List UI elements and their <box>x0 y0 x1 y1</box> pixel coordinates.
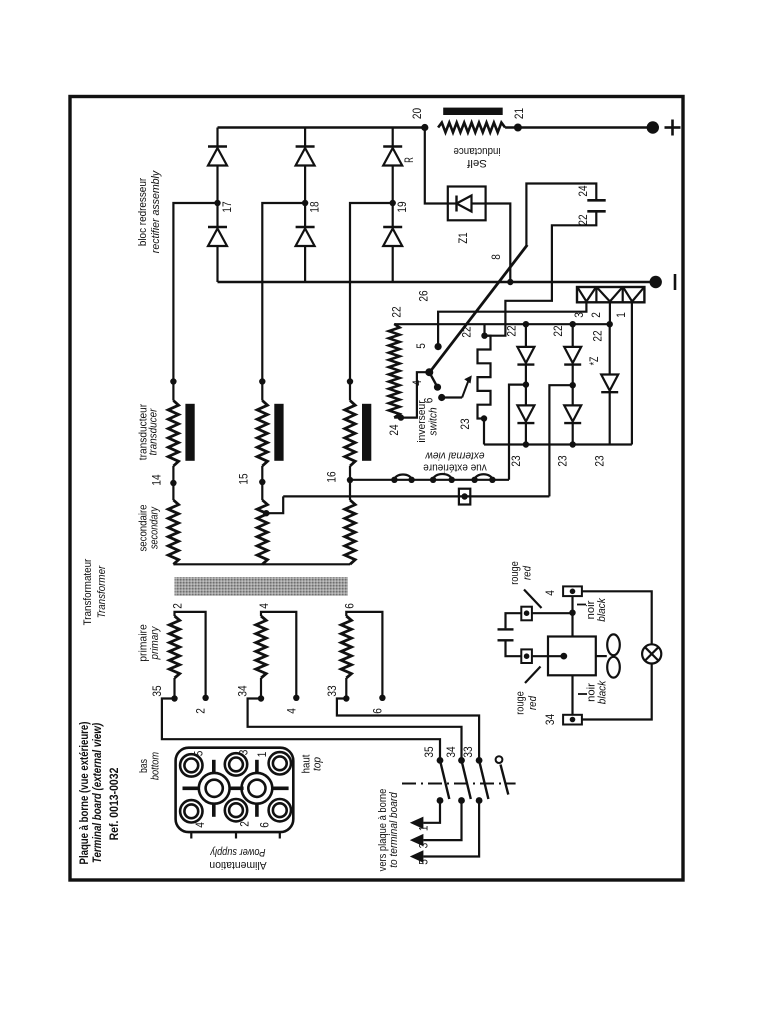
svg-text:20: 20 <box>410 108 424 119</box>
diode <box>296 145 315 147</box>
link jumper <box>475 474 493 480</box>
wire rheostat 24 to pivot 4 <box>401 372 429 417</box>
svg-text:Alimentation: Alimentation <box>209 859 266 871</box>
transducer winding 14 <box>170 378 176 384</box>
secondary winding <box>261 482 263 500</box>
svg-text:23: 23 <box>509 455 523 466</box>
link jumper <box>394 474 411 479</box>
svg-text:34: 34 <box>543 714 557 725</box>
svg-text:22: 22 <box>460 326 474 337</box>
svg-text:2: 2 <box>171 603 185 609</box>
switch pivot node 4 <box>425 368 433 376</box>
svg-text:5: 5 <box>414 343 428 349</box>
svg-text:inductance: inductance <box>454 145 501 157</box>
switch pole 35 <box>437 757 444 764</box>
diode <box>564 347 581 363</box>
wire to arrow 1 <box>423 801 440 823</box>
arrow 5 vers plaque a borne <box>410 850 424 862</box>
switch blade 4-8 <box>430 245 528 372</box>
diode <box>296 226 315 228</box>
rectifier leg 18 <box>304 128 306 147</box>
svg-text:22: 22 <box>591 330 605 341</box>
wire Z1 to node 8 <box>486 204 511 283</box>
- terminal <box>650 276 662 288</box>
wire node 20 to Z1 <box>425 128 448 204</box>
fuse box <box>459 489 470 505</box>
primary winding 35 <box>169 616 179 678</box>
svg-text:top: top <box>312 757 324 771</box>
svg-text:6: 6 <box>257 822 271 828</box>
svg-text:R: R <box>402 157 416 163</box>
wire 35 to switch <box>162 699 440 761</box>
svg-text:15: 15 <box>237 473 251 484</box>
svg-text:Z1: Z1 <box>456 232 470 243</box>
connector 3-2-1 vue exterieure <box>577 287 644 302</box>
svg-text:Plaque à borne (vue extérieure: Plaque à borne (vue extérieure) <box>77 722 91 865</box>
svg-text:22: 22 <box>551 325 565 336</box>
connector pin 2 <box>225 799 247 821</box>
switch blade short <box>429 372 437 387</box>
svg-text:2: 2 <box>589 312 603 318</box>
switch pole 34 <box>458 757 465 764</box>
wire contact 5 to connector pin 3 <box>438 302 586 346</box>
primary winding 34 <box>256 616 266 678</box>
arrow 3 vers plaque a borne <box>410 834 424 846</box>
svg-text:21: 21 <box>512 108 526 119</box>
terminal 2 <box>202 695 208 701</box>
diode column 22-23 <box>570 321 576 327</box>
svg-text:vue extérieure: vue extérieure <box>423 462 487 474</box>
svg-text:2: 2 <box>194 708 208 714</box>
svg-text:to terminal board: to terminal board <box>388 791 400 867</box>
resistor staircase <box>478 336 491 419</box>
wire to arrow 3 <box>423 801 461 841</box>
wire pin 2 to net 22 <box>609 302 611 324</box>
connector center pin <box>242 773 273 804</box>
svg-text:secondary: secondary <box>149 506 161 550</box>
wire node 18 to transducer <box>262 203 305 382</box>
terminal 4 <box>293 695 299 701</box>
connector key bars <box>183 786 199 790</box>
wire red box to motor <box>532 655 564 657</box>
terminal box red upper <box>521 607 532 621</box>
wire node 17 to transducer <box>173 203 217 382</box>
svg-text:Ref. 0013-0032: Ref. 0013-0032 <box>107 767 121 840</box>
wire terminal 4 to motor <box>571 596 573 636</box>
diode *Z column <box>607 321 613 327</box>
terminal 4 box <box>563 586 582 596</box>
switch contact 6 <box>438 394 445 401</box>
wire rectifier bottom rail net 26 <box>218 281 656 284</box>
wire to + terminal <box>505 126 653 129</box>
svg-text:bloc redresseur: bloc redresseur <box>137 178 149 247</box>
wire motor to terminal 34 <box>571 675 573 715</box>
svg-text:34: 34 <box>444 746 458 757</box>
svg-text:primary: primary <box>149 625 161 660</box>
svg-text:red: red <box>522 565 534 580</box>
svg-text:external view: external view <box>425 450 485 462</box>
svg-text:19: 19 <box>395 201 409 212</box>
svg-text:4: 4 <box>193 822 207 828</box>
wire net 22 line <box>394 323 610 325</box>
connector pin 1 <box>269 752 291 774</box>
wire staircase to bottom line <box>483 419 485 445</box>
connector stubs <box>190 832 192 838</box>
wire lamp to terminal 34 <box>582 664 652 720</box>
wire 33 to switch <box>337 699 479 761</box>
svg-text:22: 22 <box>504 325 518 336</box>
diode <box>517 347 534 363</box>
zener Z1 box <box>448 187 486 221</box>
svg-text:black: black <box>597 680 609 704</box>
svg-text:3: 3 <box>417 843 431 849</box>
diode <box>208 226 227 228</box>
transformer core <box>175 577 348 596</box>
power connector body <box>176 748 294 832</box>
svg-text:6: 6 <box>342 603 356 609</box>
svg-text:1: 1 <box>417 825 431 831</box>
svg-text:3: 3 <box>572 312 586 318</box>
wire capacitor 22 to contact 5 <box>486 212 596 335</box>
node 8 <box>507 279 513 285</box>
wire to arrow 5 <box>423 801 479 857</box>
switch pole 33 <box>476 757 483 764</box>
+ terminal <box>647 121 659 133</box>
capacitor C 24-22 <box>587 199 605 202</box>
svg-text:Transformateur: Transformateur <box>82 558 94 625</box>
svg-text:5: 5 <box>417 859 431 865</box>
secondary winding <box>172 483 174 500</box>
transducer core bar <box>274 404 283 461</box>
diode <box>517 405 534 421</box>
node 15 <box>259 479 265 485</box>
connector pin 5 <box>180 754 202 776</box>
wire link line 16 <box>350 479 510 481</box>
terminal 34 box <box>563 715 582 725</box>
svg-text:Transformer: Transformer <box>96 565 108 619</box>
wire 34 to switch <box>248 699 462 761</box>
svg-text:33: 33 <box>325 685 339 696</box>
node 34 <box>260 678 262 699</box>
node 16 <box>347 477 353 483</box>
svg-text:33: 33 <box>461 746 475 757</box>
svg-text:17: 17 <box>220 201 234 212</box>
wire tap to fuse line <box>266 496 283 513</box>
svg-text:4: 4 <box>284 708 298 714</box>
wire node 19 to transducer <box>350 203 393 382</box>
svg-text:transducer: transducer <box>148 407 160 455</box>
node 33 <box>345 678 347 699</box>
svg-text:Terminal board (external view): Terminal board (external view) <box>90 723 104 863</box>
diode column 22-23 <box>523 321 529 327</box>
transducer core bar <box>362 404 371 461</box>
wire secondary star bus <box>173 563 350 565</box>
svg-text:4: 4 <box>543 590 557 596</box>
svg-text:23: 23 <box>556 455 570 466</box>
svg-text:Self: Self <box>466 157 487 169</box>
wire fuse line tap 15 <box>283 495 549 497</box>
lamp <box>642 644 661 663</box>
secondary winding <box>349 480 351 500</box>
wire pin 1 to net 23 <box>631 302 633 444</box>
transducer winding 16 <box>347 378 353 384</box>
svg-text:Power supply: Power supply <box>209 846 265 858</box>
diode <box>383 145 402 147</box>
wire top to terminal 2 <box>175 612 206 698</box>
node mid <box>523 381 529 387</box>
node motor inner <box>560 653 567 660</box>
connector center pin <box>199 773 230 804</box>
rectifier leg 17 <box>216 128 218 147</box>
svg-text:22: 22 <box>576 214 590 225</box>
svg-text:primaire: primaire <box>138 624 150 662</box>
node 24 rheostat bottom <box>398 414 404 420</box>
svg-text:black: black <box>596 598 608 622</box>
transducer winding 15 <box>259 378 265 384</box>
svg-text:2: 2 <box>238 821 252 827</box>
node 18 <box>302 200 308 206</box>
wire net 23 bottom line <box>484 443 632 445</box>
diode <box>208 145 227 147</box>
svg-text:6: 6 <box>370 708 384 714</box>
svg-text:24: 24 <box>387 424 401 435</box>
fan <box>596 655 607 657</box>
svg-text:5: 5 <box>192 750 206 756</box>
svg-text:4: 4 <box>257 603 271 609</box>
svg-text:bottom: bottom <box>150 752 162 780</box>
dash-dot coupling line <box>402 783 516 785</box>
diode <box>601 375 618 391</box>
rectifier leg 19 <box>392 128 394 147</box>
wire blade top to capacitor 24 <box>526 184 596 246</box>
svg-text:34: 34 <box>236 685 250 696</box>
svg-text:24: 24 <box>576 185 590 196</box>
wire T to staircase <box>483 324 485 336</box>
svg-text:8: 8 <box>489 254 503 260</box>
core bar of self inductance <box>443 108 503 115</box>
switch contact 5 <box>435 343 442 350</box>
connector pin 3 <box>225 753 247 775</box>
svg-text:35: 35 <box>150 685 164 696</box>
svg-text:rectifier assembly: rectifier assembly <box>150 169 162 253</box>
resistor rheostat 22-24 <box>389 324 400 418</box>
wire top to terminal 4 <box>261 612 296 698</box>
svg-text:16: 16 <box>325 471 339 482</box>
arrow 1 vers plaque a borne <box>410 817 424 829</box>
inductor self inductance L1 <box>438 123 505 133</box>
svg-text:26: 26 <box>417 290 431 301</box>
node 20 <box>421 124 428 131</box>
svg-text:1: 1 <box>255 751 269 757</box>
node secondary tap 15 <box>263 510 269 516</box>
node 21 <box>514 124 522 132</box>
node 23 staircase bottom <box>481 415 487 421</box>
svg-text:rouge: rouge <box>509 561 521 585</box>
node 14 <box>170 480 176 486</box>
svg-text:23: 23 <box>458 418 472 429</box>
wire top to terminal 6 <box>346 612 382 698</box>
terminal 6 <box>379 695 385 701</box>
svg-text:red: red <box>527 695 539 710</box>
connector pin 6 <box>269 799 291 821</box>
svg-text:rouge: rouge <box>515 691 527 715</box>
primary winding 33 <box>341 616 351 678</box>
diode <box>383 226 402 228</box>
svg-text:*Z: *Z <box>587 357 601 366</box>
link jumper <box>433 474 452 480</box>
diode <box>564 405 581 421</box>
capacitor motor <box>506 613 522 628</box>
node 17 <box>214 200 220 206</box>
svg-text:14: 14 <box>150 474 164 485</box>
wire mid node to pairs line <box>509 385 526 480</box>
wire node to red box <box>532 612 573 614</box>
transducer core bar <box>185 404 194 461</box>
svg-text:22: 22 <box>390 306 404 317</box>
node 19 <box>390 200 396 206</box>
node motor top <box>569 610 575 616</box>
wire contact 6 wiper arrow <box>442 396 462 398</box>
node 22 staircase top <box>481 333 487 339</box>
svg-text:bas: bas <box>138 759 150 773</box>
switch pole spare <box>496 756 503 763</box>
border frame <box>70 97 683 881</box>
node 35 <box>173 678 175 699</box>
svg-text:18: 18 <box>308 201 322 212</box>
svg-text:3: 3 <box>237 749 251 755</box>
motor box <box>548 637 596 676</box>
diode Z1 symbol <box>455 196 457 212</box>
wire rectifier top rail <box>218 126 425 129</box>
svg-text:35: 35 <box>422 746 436 757</box>
svg-text:1: 1 <box>614 312 628 318</box>
wire terminal 4 to lamp <box>582 591 652 644</box>
terminal box red lower <box>521 649 532 663</box>
connector pin 4 <box>180 800 202 822</box>
node mid <box>570 382 576 388</box>
svg-text:switch: switch <box>428 407 440 435</box>
wire mid node to fuse line <box>549 385 572 496</box>
svg-text:23: 23 <box>593 455 607 466</box>
